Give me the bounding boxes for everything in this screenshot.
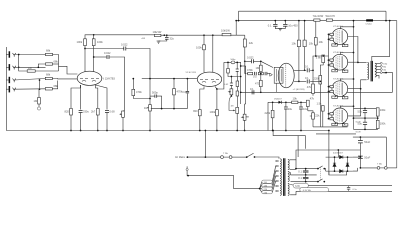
selector tap 220V <box>262 187 273 190</box>
svg-text:8Ω: 8Ω <box>383 66 386 68</box>
svg-text:220k: 220k <box>314 77 320 81</box>
svg-text:10k: 10k <box>309 42 314 46</box>
wire PT tap stub 3 <box>277 175 279 177</box>
switch standby DPST <box>318 166 323 182</box>
bias pot arrow <box>310 115 312 117</box>
junction <box>235 20 237 22</box>
wire bridge out 2 <box>353 168 358 171</box>
resistor screen stopper V7 <box>330 118 334 120</box>
wire V1 cathode a to cap <box>80 85 82 110</box>
svg-text:68k: 68k <box>54 60 59 64</box>
wire rail to cap 2 <box>284 21 286 25</box>
wire plate bus A <box>348 37 367 63</box>
junction <box>18 54 20 56</box>
capacitor PI 0.1 <box>265 72 267 75</box>
resistor screen stopper V5 <box>330 64 334 66</box>
wire mix node to V2 grid <box>150 78 197 80</box>
svg-text:+C (ECC83): +C (ECC83) <box>293 89 305 91</box>
resistor grid leak 5.6k <box>316 55 325 63</box>
wire heater run 2 <box>296 190 392 192</box>
wire vol1 top <box>123 110 125 113</box>
power transformer HT secondary <box>288 159 289 169</box>
resistor bias bleed 220k <box>265 110 275 118</box>
wire <box>259 188 261 190</box>
wire cap to rail <box>166 35 168 37</box>
selector tap 110V <box>262 180 273 183</box>
junction <box>300 130 302 132</box>
wire heater 2b <box>290 191 296 195</box>
svg-text:2k7: 2k7 <box>91 110 96 114</box>
svg-text:10k: 10k <box>319 40 324 44</box>
wire stub <box>142 78 150 80</box>
wire bridge bottom loop <box>329 171 347 175</box>
junction <box>173 108 175 110</box>
junction <box>93 56 95 58</box>
svg-text:0.1: 0.1 <box>250 87 254 91</box>
wire selector 220 to tap <box>272 176 275 189</box>
capacitor 50uF (series a) <box>358 110 368 114</box>
junction <box>305 168 307 170</box>
choke L1 <box>366 19 373 21</box>
junction <box>285 130 287 132</box>
svg-text:1M: 1M <box>28 66 32 70</box>
junction <box>199 130 201 132</box>
wire riser to coupling cap <box>186 79 188 91</box>
svg-text:6.3V: 6.3V <box>295 186 300 188</box>
wire slope top <box>227 62 229 68</box>
potentiometer volume 1 (1M) <box>120 111 125 117</box>
svg-text:10k/1W: 10k/1W <box>221 29 230 33</box>
capacitor PI coupling 0.022 <box>247 56 254 64</box>
capacitor coupling 0.022 ch2 <box>104 51 111 59</box>
junction <box>238 20 240 22</box>
svg-text:T 3A: T 3A <box>377 163 382 166</box>
resistor screen stopper V6 <box>330 90 334 92</box>
wire HT lead 1 line <box>290 150 361 160</box>
capacitor bright 500p <box>152 91 158 98</box>
capacitor cathode V4 <box>342 44 348 46</box>
terminal PT tap 1 <box>276 165 278 167</box>
wire OT tap 4 <box>376 69 380 71</box>
wire 1.5k down <box>322 111 324 127</box>
capacitor main filter 50uF (2) <box>358 156 371 160</box>
wire 220k gnd <box>272 118 274 131</box>
power transformer heater secondary 2 <box>288 183 289 195</box>
resistor dropper 10k/1W (2) <box>221 29 231 36</box>
wire selector blade 240 <box>260 189 262 193</box>
wire <box>312 94 314 96</box>
wire <box>272 102 274 110</box>
wire grid into tube <box>332 86 334 88</box>
terminal circle <box>37 107 40 110</box>
wire V1 grid A feed <box>59 66 78 74</box>
resistor balance 100k (2) <box>376 120 386 128</box>
switch mains SPST <box>247 153 254 157</box>
power transformer primary <box>280 159 281 196</box>
junction <box>312 69 314 71</box>
wire stub to out rail <box>241 65 246 67</box>
potentiometer volume 2 1M <box>144 105 151 111</box>
junction <box>317 168 319 170</box>
svg-text:500p: 500p <box>152 91 158 95</box>
junction <box>353 20 355 22</box>
resistor tone 100k <box>236 81 239 87</box>
junction <box>347 156 349 158</box>
wire bias R out <box>298 101 308 103</box>
wire <box>364 113 366 118</box>
svg-text:22k: 22k <box>249 41 254 45</box>
terminal OT 16 ohm <box>380 62 382 64</box>
wire screen stub <box>340 27 353 29</box>
resistor V2 plate 100k <box>196 45 205 50</box>
wire <box>247 73 248 75</box>
wire <box>377 128 379 131</box>
capacitor snubber 0.1u <box>298 170 308 174</box>
junction <box>304 20 306 22</box>
wire <box>329 33 330 35</box>
wire 820b to ground <box>199 116 201 131</box>
junction <box>323 168 325 170</box>
output transformer core <box>371 61 372 82</box>
wire R1 out down <box>53 55 59 72</box>
resistor mixer 470k <box>132 89 142 95</box>
wire 1M lower to terminal <box>38 104 40 107</box>
wire cap B out <box>310 80 320 82</box>
wire PT aux down <box>305 136 307 149</box>
junction <box>328 86 330 88</box>
resistor cathode V7 <box>332 123 338 125</box>
junction <box>272 101 274 103</box>
svg-text:330u: 330u <box>83 110 89 114</box>
junction <box>149 130 151 132</box>
junction <box>353 105 355 107</box>
wire jack1-jack2 link <box>18 55 20 68</box>
wire to R2 <box>38 64 45 67</box>
wire PI plate a down <box>298 47 300 82</box>
power transformer heater secondary 1 <box>288 171 289 181</box>
wire R3 out to V1 grid B <box>52 78 77 80</box>
wire cluster bottom <box>354 128 378 130</box>
junction <box>328 91 330 93</box>
wire PI plate B out <box>294 80 306 82</box>
wire tone out to PI <box>244 73 247 75</box>
wire rail to screen dropper <box>315 21 317 37</box>
resistor rail 7AL/10W <box>313 14 324 21</box>
resistor rail WL/C70 <box>326 14 336 21</box>
junction <box>323 181 325 183</box>
wire selector 130 to tap <box>272 171 275 185</box>
wire cap to ground <box>80 113 82 131</box>
junction <box>353 52 355 54</box>
wire grid bus <box>328 34 330 118</box>
junction <box>334 170 336 172</box>
junction <box>173 78 175 80</box>
svg-text:470k: 470k <box>136 90 142 94</box>
wire <box>329 64 330 66</box>
terminal PT tap 6 <box>276 190 278 192</box>
wire to PI cap <box>245 60 252 62</box>
ground bus <box>6 130 329 132</box>
pentode output V5 EL34 <box>332 54 348 70</box>
svg-text:1.5k: 1.5k <box>317 102 323 106</box>
potentiometer bias 22k <box>312 113 320 119</box>
svg-text:10u: 10u <box>288 107 293 111</box>
capacitor V1 bypass 0.68 <box>105 110 115 114</box>
junction <box>353 117 355 119</box>
pentode output V4 EL34 <box>332 29 348 45</box>
V3 cathode wire <box>275 83 277 92</box>
ground (filter cap) <box>157 41 161 43</box>
wire fuse to B+ riser <box>387 167 397 169</box>
terminal mains L <box>187 156 189 158</box>
wire jack2 row <box>14 66 45 68</box>
wire PI plate A out <box>294 69 306 71</box>
resistor PI b <box>258 72 263 74</box>
wire jack4 to 1M lower <box>38 89 40 97</box>
wire to 1M upper <box>19 67 28 71</box>
wire PT tap stub 6 <box>277 190 279 192</box>
wire PI grid to tube <box>261 61 273 67</box>
resistor V2 cathode 820 <box>193 109 201 116</box>
svg-text:100k: 100k <box>77 40 83 44</box>
junction <box>244 60 246 62</box>
svg-text:0.022: 0.022 <box>247 56 254 60</box>
wire B+ rail segment 1 <box>85 35 154 39</box>
triode V3 phase inverter envelope <box>278 63 294 88</box>
wire screens rail <box>353 21 355 109</box>
wire riser lower <box>186 93 188 108</box>
wire tone cap bottom <box>236 71 238 76</box>
wire into PI <box>267 73 270 75</box>
wire <box>364 118 366 122</box>
junction <box>240 65 242 67</box>
resistor R1 68k <box>46 49 53 56</box>
resistor PI plate 82k <box>303 40 314 47</box>
svg-text:0.5: 0.5 <box>253 75 257 79</box>
wire plate a to V1 <box>84 46 86 72</box>
pot wiper arrow <box>147 107 149 109</box>
wire to treble cap <box>224 61 231 63</box>
wire cap to bridge <box>359 159 361 168</box>
capacitor bias 10u <box>284 107 293 111</box>
terminal OT 0 ohm <box>380 72 382 74</box>
junction <box>300 101 302 103</box>
junction <box>227 62 229 64</box>
resistor bias 10k <box>292 96 298 103</box>
svg-text:50u: 50u <box>358 110 363 114</box>
wire <box>260 61 262 65</box>
wire snub2 bottom <box>305 179 307 182</box>
wire drop to bridge rail 1 <box>337 150 339 157</box>
V3 internal plates <box>274 67 283 83</box>
wire heater aux line 1 <box>320 126 347 128</box>
V3 input arrow <box>270 73 273 76</box>
junction <box>328 59 330 61</box>
wire heater 1a <box>289 172 291 175</box>
junction <box>122 130 124 132</box>
wire diode to R <box>282 101 292 103</box>
wire cathode to R <box>335 69 338 71</box>
svg-text:AC Mains: AC Mains <box>175 156 186 159</box>
wire rail to mid pot <box>245 103 246 105</box>
wire OT tap 0 <box>376 72 380 74</box>
wire rail to 22k <box>244 35 246 39</box>
wire bass pot to ground <box>236 113 238 130</box>
svg-text:T 2A: T 2A <box>223 152 228 155</box>
wire cathode to R <box>335 95 338 97</box>
capacitor cathode V5 <box>342 70 348 72</box>
bass pot wiper arrow <box>229 96 235 111</box>
terminal mains N <box>186 168 188 170</box>
wire cathode to R <box>335 122 338 124</box>
wire V2 cathode a down <box>200 86 204 109</box>
wire ground drop <box>328 131 330 176</box>
junction <box>337 149 339 151</box>
junction <box>357 62 359 64</box>
pentode output V6 EL34 <box>332 81 348 97</box>
svg-text:0.1: 0.1 <box>305 76 309 80</box>
junction <box>304 69 306 71</box>
wire cap1 to mix node <box>126 49 150 79</box>
wire switch feed 2 <box>291 181 318 183</box>
svg-text:1M: 1M <box>34 99 38 103</box>
junction <box>328 38 330 40</box>
wire bias cap1 gnd <box>285 109 287 131</box>
mid pot wiper arrow <box>241 116 245 118</box>
terminal OT 8 ohm <box>380 65 382 67</box>
ground (supply RC) <box>278 29 282 31</box>
wire screen stub <box>340 53 353 55</box>
svg-text:V 12AX7B3: V 12AX7B3 <box>103 78 116 81</box>
wire plate bus B <box>348 80 367 116</box>
capacitor coupling 0.1 (B) <box>305 76 309 84</box>
wire bass cap top <box>230 77 232 84</box>
resistor screen stopper V4 <box>330 38 334 40</box>
junction <box>285 101 287 103</box>
wire <box>329 91 330 93</box>
wire selector 110 to tap <box>272 166 275 182</box>
terminal OT 4 ohm <box>380 69 382 71</box>
wire grid into tube <box>332 113 334 115</box>
capacitor bias 10u (2) <box>299 107 308 111</box>
capacitor cathode V6 <box>342 97 348 99</box>
junction <box>353 78 355 80</box>
wire bias cap2 gnd <box>300 109 302 131</box>
wire fuse to switch <box>232 156 247 158</box>
wire HT lead 2 <box>290 168 296 170</box>
resistor mixer 470k (b) <box>173 89 183 95</box>
wire jack3-jack4 link <box>39 80 41 89</box>
junction <box>166 34 168 36</box>
potentiometer bass 1M <box>236 107 239 113</box>
wire <box>300 102 302 107</box>
wire <box>377 116 379 120</box>
wire grid into tube <box>332 59 334 61</box>
wire riser <box>312 70 314 84</box>
wire R2 out <box>53 63 59 65</box>
wire switch mid line <box>291 174 317 176</box>
junction <box>187 175 189 177</box>
wire screen rail right down <box>385 11 387 20</box>
svg-text:470: 470 <box>255 82 260 86</box>
junction <box>347 170 349 172</box>
svg-text:22k: 22k <box>315 114 320 118</box>
wire PI plate b down <box>304 47 306 71</box>
wire between filters <box>359 143 361 156</box>
wire <box>285 102 287 107</box>
capacitor treble (oval) <box>231 61 235 64</box>
wire 470k to vol2 <box>133 98 150 100</box>
svg-text:4Ω: 4Ω <box>383 70 386 72</box>
wire volume wiper bus <box>151 108 188 110</box>
junction <box>272 130 274 132</box>
wire 100k to V2 plate <box>203 50 205 73</box>
junction <box>389 20 391 22</box>
wire HT lead down <box>295 160 297 169</box>
svg-text:50u: 50u <box>358 121 363 125</box>
input ground bar <box>5 47 7 131</box>
junction <box>163 34 165 36</box>
wire plate a to coupling cap <box>85 48 124 50</box>
wire <box>329 118 330 120</box>
junction <box>39 79 41 81</box>
resistor V1 plate 100k (b) <box>92 39 103 46</box>
wire <box>236 87 238 92</box>
wire NFB from 0 ohm tap <box>382 73 392 93</box>
junction <box>254 156 256 158</box>
svg-text:820: 820 <box>193 109 198 113</box>
wire right B+ riser <box>396 21 398 168</box>
wire plate b to coupling <box>94 56 107 58</box>
svg-text:100k: 100k <box>380 108 386 112</box>
wire 820 to ground <box>70 115 72 131</box>
junction <box>385 20 387 22</box>
resistor tone 100k (2) <box>236 91 239 96</box>
wire B+ top rail <box>236 20 397 22</box>
capacitor heater 0.1u <box>347 186 358 192</box>
wire grid leak to bias feed <box>319 84 321 127</box>
junction <box>364 117 366 119</box>
wire <box>364 108 366 110</box>
junction <box>97 130 99 132</box>
resistor V1 cathode 820 <box>65 109 73 116</box>
svg-text:50uF: 50uF <box>364 156 370 160</box>
junction <box>377 117 379 119</box>
wire switch to PT primary <box>255 157 280 159</box>
resistor V1 cathode 2k7 <box>91 109 99 116</box>
triode V1 (ECC83) envelope <box>77 71 102 85</box>
svg-text:10k/1W: 10k/1W <box>153 30 162 34</box>
capacitor bass 0.022 bars <box>230 82 233 84</box>
wire <box>329 113 330 115</box>
wire bright cap right <box>157 96 162 109</box>
wire jack1 to R1 <box>14 54 45 56</box>
resistor grid stopper V7 <box>330 113 334 115</box>
svg-text:47k: 47k <box>310 97 315 101</box>
wire NFB line <box>241 91 393 93</box>
treble pot wiper arrow <box>228 91 231 93</box>
output transformer primary <box>367 62 368 79</box>
resistor PI 470k <box>247 68 253 75</box>
wire PT tap stub 2 <box>277 170 279 172</box>
wire OT tap 8 <box>376 65 380 67</box>
wire cathode to C <box>343 43 345 46</box>
junction <box>149 78 151 80</box>
resistor dropper 10k/1W <box>153 30 162 37</box>
wire plate b to V1 <box>93 46 95 72</box>
junction <box>84 48 86 50</box>
wire from heater tap <box>267 102 269 130</box>
